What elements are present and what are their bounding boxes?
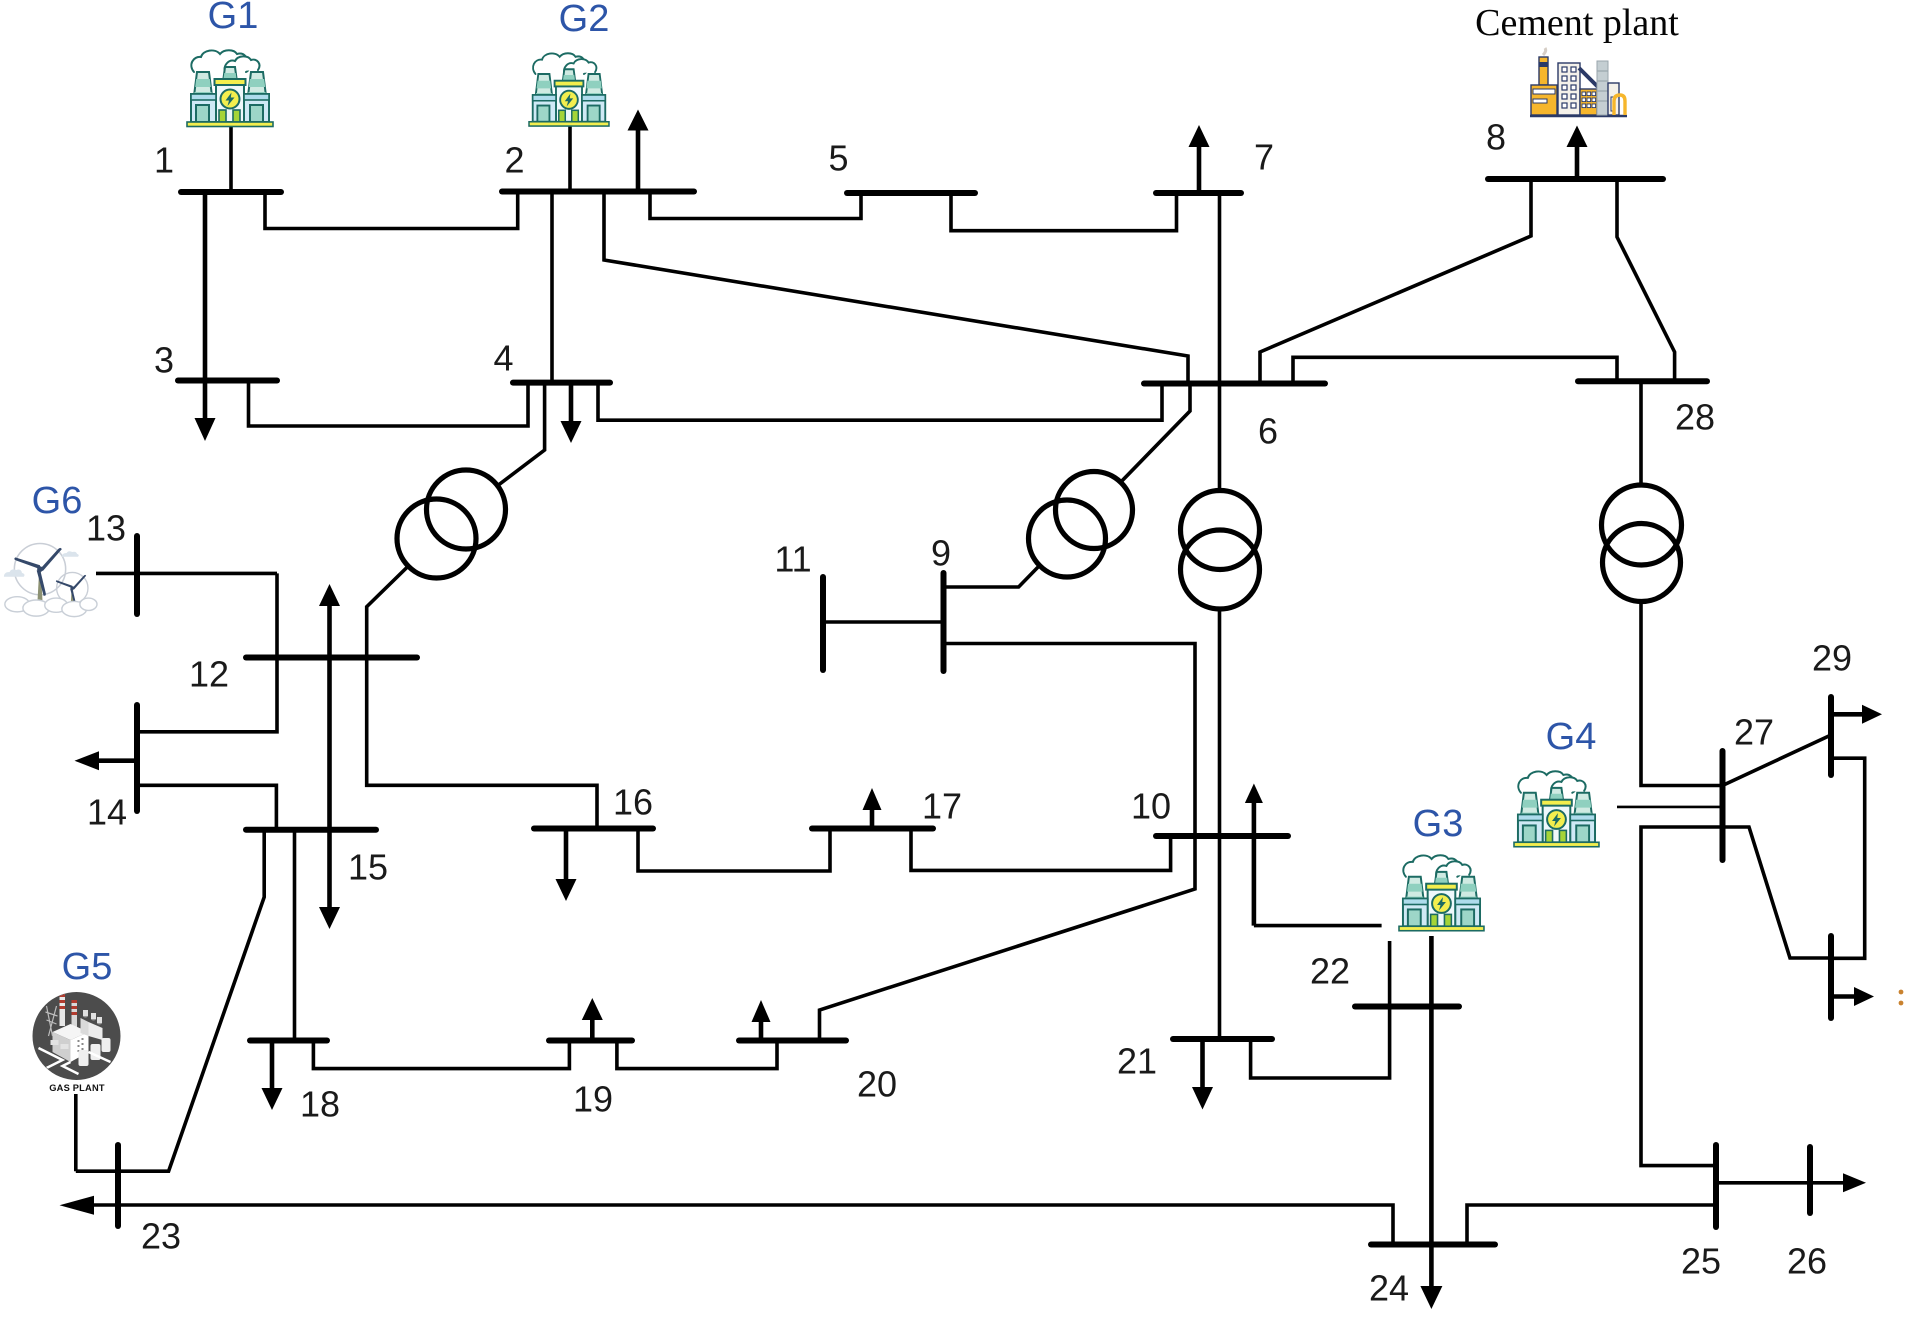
wire bus15-bus18: [293, 830, 297, 1041]
load arrowhead bus 2 (up): [628, 110, 649, 131]
wire transformer T1 to bus12 to bus16: [367, 539, 597, 829]
bus 11 (vertical): [820, 577, 826, 670]
load arrowhead bus 29 (right): [1862, 705, 1882, 724]
bus 17: [812, 826, 933, 832]
svg-text:17: 17: [922, 786, 962, 827]
bus 5: [847, 190, 975, 196]
load arrow shaft bus 17: [870, 808, 875, 829]
load arrow shaft bus 21: [1200, 1039, 1205, 1089]
transformer T4 (bus28-bus27): [1602, 485, 1682, 602]
wire bus6-bus28: [1293, 357, 1617, 383]
svg-text:G6: G6: [32, 480, 83, 522]
load arrowhead bus12/15 (down): [319, 907, 340, 929]
load arrow shaft bus 10 through bus to G3 lead: [1252, 803, 1257, 926]
svg-text:9: 9: [931, 533, 951, 574]
svg-text:3: 3: [154, 340, 174, 381]
wire bus16-bus17: [638, 829, 830, 872]
svg-text:14: 14: [87, 792, 127, 833]
bus 23 (vertical): [115, 1145, 121, 1226]
wire G4 to bus 27 (thin): [1617, 806, 1723, 809]
load arrow shaft bus 4: [569, 383, 574, 423]
svg-text:12: 12: [189, 654, 229, 695]
load arrow shaft bus 14 (left): [99, 758, 137, 763]
bus 25 (vertical): [1713, 1145, 1719, 1227]
load arrowhead bus 7 (up): [1189, 125, 1210, 147]
generator G1 icon: [187, 50, 273, 126]
wire bus24-bus25: [1467, 1205, 1716, 1245]
load arrow shaft bus 30 (right): [1831, 994, 1856, 999]
load arrow shaft bus 20: [759, 1020, 764, 1040]
wire bus8-bus28 diagonal: [1617, 179, 1675, 381]
svg-text:13: 13: [86, 508, 126, 549]
bus 6: [1144, 381, 1325, 387]
load arrow shaft bus 7: [1197, 145, 1202, 193]
svg-text:GAS PLANT: GAS PLANT: [49, 1083, 105, 1093]
wire bus29-bus30 loop: [1831, 758, 1865, 958]
svg-text:G4: G4: [1546, 716, 1597, 758]
wire bus4-bus6: [598, 383, 1162, 421]
wire bus28 to transformer T4 to bus27: [1641, 381, 1723, 785]
wire bus15-bus23 diagonal: [76, 830, 264, 1171]
svg-text:G2: G2: [559, 0, 610, 40]
bus 29 (vertical): [1828, 697, 1834, 775]
wire bus27 lower to bus25: [1641, 827, 1831, 1166]
wire bus2-bus4: [550, 192, 554, 382]
load arrowhead bus 21 (down): [1192, 1087, 1213, 1110]
wire bus25-bus26 with load arrow shaft: [1716, 1181, 1845, 1185]
load arrowhead bus12/15 (up): [319, 584, 340, 606]
svg-text:28: 28: [1675, 397, 1715, 438]
generator G2 icon: [529, 53, 609, 126]
bus 22: [1355, 1004, 1459, 1010]
load arrow shaft bus 8: [1575, 145, 1580, 179]
svg-text:19: 19: [573, 1079, 613, 1120]
svg-text:26: 26: [1787, 1241, 1827, 1282]
bus 3: [178, 378, 277, 384]
load arrowhead bus 23 (left): [60, 1196, 95, 1215]
wire bus8-bus6 diagonal: [1260, 179, 1531, 382]
bus 20: [739, 1038, 846, 1044]
load arrowhead bus 24 (down): [1420, 1286, 1442, 1309]
bus 13 (vertical): [134, 536, 140, 614]
wire bus13-bus12-bus14: [137, 573, 277, 731]
bus 21: [1173, 1036, 1272, 1042]
svg-text:21: 21: [1117, 1041, 1157, 1082]
load arrowhead bus 20 (up): [752, 1000, 771, 1022]
bus 10: [1156, 833, 1288, 839]
wire bus1-bus3 and load shaft bus 3: [203, 192, 208, 419]
bus 15: [246, 827, 376, 833]
svg-text:G3: G3: [1413, 803, 1464, 845]
load arrowhead bus 26 (right): [1843, 1173, 1866, 1192]
wire G5 stem to bus 23: [74, 1094, 78, 1171]
load arrowhead bus 18 (down): [262, 1088, 283, 1110]
wire bus22-bus21: [1251, 1007, 1390, 1078]
wire bus27-bus29 diagonal: [1723, 735, 1832, 786]
transformer T3 (bus6-bus10): [1181, 491, 1260, 610]
wire bus18-bus19: [313, 1041, 569, 1069]
load arrowhead bus 3 (down): [195, 418, 216, 441]
svg-text:25: 25: [1681, 1241, 1721, 1282]
svg-text:16: 16: [613, 782, 653, 823]
load arrowhead bus 30 (right): [1854, 987, 1874, 1006]
svg-text:10: 10: [1131, 786, 1171, 827]
generator G5 icon (gas plant): [33, 992, 121, 1080]
svg-text:G5: G5: [62, 946, 113, 988]
generator G4 icon: [1514, 771, 1599, 846]
wire G3 chain bus22-bus24 and load shaft bus 24: [1429, 936, 1434, 1287]
wire bus17-bus10: [911, 829, 1171, 871]
wire bus3-bus4: [249, 381, 529, 427]
load arrowhead bus 17 (up): [863, 788, 882, 810]
load arrowhead bus 8 (up): [1567, 126, 1588, 148]
bus 2: [502, 189, 694, 195]
wire bus11-bus9: [823, 620, 944, 624]
svg-text:2: 2: [504, 140, 524, 181]
svg-text:22: 22: [1310, 951, 1350, 992]
load arrow shaft bus 29 (right): [1831, 712, 1866, 717]
wire bus19-bus20: [617, 1041, 777, 1069]
wire bus4 to transformer T1: [466, 383, 545, 510]
double load arrow shaft bus12/bus15: [327, 604, 332, 908]
load arrowhead bus 4 (down): [561, 421, 582, 443]
load arrow shaft bus 2: [636, 128, 641, 192]
bus 24: [1371, 1242, 1495, 1248]
Cement plant icon: [1530, 48, 1627, 116]
svg-text:Cement plant: Cement plant: [1475, 2, 1679, 44]
load arrowhead bus 14 (left): [75, 751, 100, 770]
wire bus5-bus7: [951, 193, 1177, 231]
svg-text:1: 1: [154, 140, 174, 181]
bus 30 (vertical): [1828, 936, 1834, 1018]
wire bus2-bus5: [650, 192, 861, 219]
generator G6 icon (wind farm): [4, 543, 97, 616]
svg-text:27: 27: [1734, 712, 1774, 753]
wire G2 stem to bus 2: [568, 126, 572, 191]
load arrowhead bus 10 (up): [1245, 784, 1263, 804]
svg-text:18: 18: [300, 1084, 340, 1125]
wire bus10 to bus22 horizontal: [1254, 924, 1382, 928]
svg-text:15: 15: [348, 847, 388, 888]
bus 14 (vertical): [134, 705, 140, 811]
svg-text:7: 7: [1254, 137, 1274, 178]
svg-text:11: 11: [774, 539, 811, 580]
bus 27 (vertical): [1720, 751, 1726, 860]
clipped label 30 remnant dots: [1899, 990, 1904, 995]
svg-text:24: 24: [1369, 1268, 1409, 1309]
bus 18: [250, 1038, 327, 1044]
wire bus22 left riser: [1388, 941, 1392, 1007]
svg-text:20: 20: [857, 1064, 897, 1105]
svg-text:29: 29: [1812, 638, 1852, 679]
bus 8: [1488, 176, 1663, 182]
load arrow shaft bus 19: [590, 1018, 595, 1040]
bus 16: [534, 826, 653, 832]
svg-text:G1: G1: [208, 0, 259, 37]
wire bus1-bus2: [265, 192, 518, 229]
load arrowhead bus 16 (down): [556, 879, 577, 901]
generator G3 icon: [1399, 855, 1484, 930]
wire chain bus7-bus6-transformer-bus10-bus21: [1218, 193, 1222, 1039]
bus 9 (vertical): [941, 573, 947, 671]
load arrowhead bus 19 (up): [582, 998, 603, 1020]
svg-text:5: 5: [828, 138, 848, 179]
svg-text:4: 4: [493, 338, 513, 379]
transformer T2 (bus9-bus6): [1029, 472, 1133, 578]
transformer T1 (bus4-bus12) white fill: [397, 470, 506, 578]
wire G6 to bus 13 horizontal: [96, 572, 277, 576]
load arrow shaft bus 16: [564, 829, 569, 882]
svg-text:23: 23: [141, 1216, 181, 1257]
wire bus20-bus10 diagonal: [820, 644, 1196, 1041]
wire bus23-bus24 long line with load shaft at 23: [94, 1205, 1393, 1245]
bus 26 (vertical): [1807, 1147, 1813, 1213]
bus 12: [246, 655, 417, 661]
bus 19: [549, 1038, 632, 1044]
bus 28: [1578, 378, 1707, 384]
bus 7: [1156, 190, 1241, 196]
svg-text:8: 8: [1486, 117, 1506, 158]
bus 1: [181, 189, 281, 195]
wire bus9 to transformer T2 to bus6: [944, 384, 1191, 588]
wire bus14-bus15: [137, 785, 276, 830]
wire G1 stem to bus 1: [229, 126, 233, 191]
load arrow shaft bus 18: [270, 1040, 275, 1090]
bus 4: [513, 380, 610, 386]
svg-text:6: 6: [1258, 411, 1278, 452]
wire bus2-bus6 diagonal: [604, 192, 1188, 382]
